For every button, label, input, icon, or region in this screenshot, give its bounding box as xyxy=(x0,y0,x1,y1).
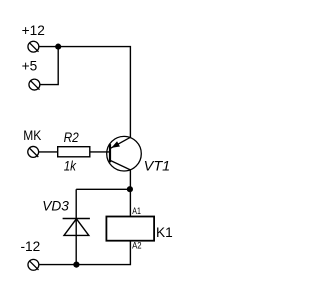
diode VD3 xyxy=(63,219,90,236)
wire diode vertical xyxy=(75,189,77,264)
svg-text:+5: +5 xyxy=(22,58,38,73)
svg-text:A2: A2 xyxy=(132,240,142,250)
svg-text:+12: +12 xyxy=(22,23,45,38)
svg-text:VD3: VD3 xyxy=(42,199,69,214)
wire collector to relay pin A1 xyxy=(129,170,131,217)
svg-text:1k: 1k xyxy=(64,159,77,174)
wire +12 rail to collector drop xyxy=(39,47,130,138)
node C junction dot xyxy=(73,262,79,268)
terminal +12 xyxy=(28,41,39,52)
wire +5 branch xyxy=(40,47,58,85)
svg-text:K1: K1 xyxy=(156,225,173,240)
svg-text:R2: R2 xyxy=(64,130,80,145)
node B junction dot xyxy=(127,186,133,192)
svg-text:MK: MK xyxy=(23,128,41,143)
wire A2 to rail xyxy=(40,241,131,265)
svg-text:VT1: VT1 xyxy=(144,158,171,173)
svg-text:-12: -12 xyxy=(21,239,41,254)
transistor VT1 xyxy=(107,136,142,171)
svg-text:A1: A1 xyxy=(132,206,141,216)
terminal MK xyxy=(28,146,39,157)
relay coil K1 xyxy=(106,217,154,241)
wire node B to diode xyxy=(76,188,130,190)
resistor R2 xyxy=(58,147,90,157)
terminal +5 xyxy=(29,79,40,90)
wire MK to R2 xyxy=(39,151,58,153)
terminal -12 xyxy=(28,259,39,270)
wire R2 to base xyxy=(90,151,110,153)
node A junction dot xyxy=(55,44,61,50)
